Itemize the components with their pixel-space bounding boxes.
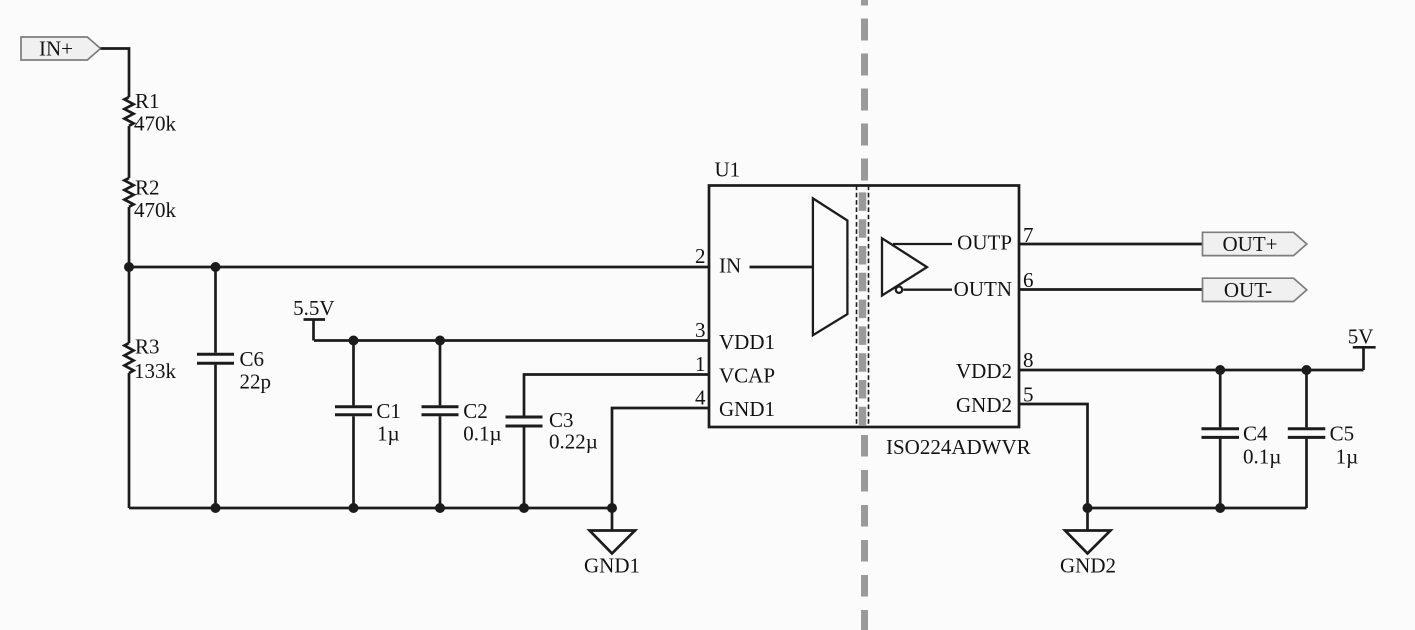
connector OUT+ [1203, 232, 1307, 255]
junction dot C4 top [1215, 365, 1225, 375]
capacitor C2 [439, 341, 442, 406]
svg-text:1: 1 [695, 352, 706, 376]
wire R3 to bottom rail [128, 373, 131, 508]
svg-text:GND1: GND1 [584, 553, 640, 577]
svg-text:1µ: 1µ [1336, 444, 1359, 468]
junction dot C2 top [435, 336, 445, 346]
junction dot C5 top [1302, 365, 1312, 375]
svg-text:C2: C2 [463, 399, 488, 423]
svg-text:C5: C5 [1330, 422, 1355, 446]
resistor R2 [124, 178, 133, 207]
svg-text:OUT+: OUT+ [1222, 232, 1277, 256]
capacitor C5 [1305, 370, 1308, 427]
svg-text:VCAP: VCAP [719, 364, 775, 388]
wire pin 7 to OUT+ [1019, 243, 1203, 246]
svg-text:VDD2: VDD2 [956, 359, 1012, 383]
junction dot C6 top [211, 262, 221, 272]
junction dots bottom rail [211, 503, 221, 513]
svg-text:5.5V: 5.5V [293, 296, 334, 320]
junction dot C4 bottom [1215, 503, 1225, 513]
U1 internal isolation dashed lines [856, 186, 858, 428]
svg-text:470k: 470k [134, 198, 177, 222]
svg-text:OUT-: OUT- [1224, 278, 1272, 302]
svg-text:IN+: IN+ [39, 37, 73, 61]
wire 5.5V rail to pin 3 (VDD1) [314, 339, 709, 342]
wire pin 5 (GND2) down [1019, 404, 1088, 508]
capacitor C1 [352, 341, 355, 406]
connector IN+ [21, 37, 101, 60]
svg-text:C4: C4 [1243, 422, 1268, 446]
capacitor C4 [1219, 370, 1222, 427]
resistor R1 [124, 97, 133, 126]
wire buffer to OUTP [893, 243, 952, 245]
svg-text:U1: U1 [715, 158, 741, 182]
svg-text:OUTN: OUTN [954, 277, 1012, 301]
capacitor C6 [214, 267, 217, 353]
wire IN to trapezoid [750, 266, 813, 269]
bottom right rail [1088, 507, 1307, 510]
op-amp U1 box [709, 186, 1019, 428]
svg-text:R2: R2 [135, 176, 160, 200]
svg-text:C3: C3 [549, 408, 574, 432]
U1 input stage trapezoid [813, 198, 848, 335]
U1 internal gray dashed line [859, 192, 867, 425]
U1 output buffer triangle [882, 238, 927, 295]
node A junction dot [124, 262, 134, 272]
isolation barrier gray dashed line (bottom segment) [861, 435, 868, 630]
svg-text:GND1: GND1 [719, 397, 775, 421]
wire R2 to node A [128, 207, 131, 267]
wire node A to pin 2 (IN) [129, 266, 709, 269]
svg-text:1µ: 1µ [377, 422, 400, 446]
svg-text:22p: 22p [240, 369, 272, 393]
junction dot C1 top [349, 336, 359, 346]
wire pin 4 (GND1) down [612, 408, 709, 508]
svg-text:C6: C6 [240, 347, 265, 371]
svg-text:GND2: GND2 [1060, 553, 1116, 577]
svg-text:0.22µ: 0.22µ [549, 430, 598, 454]
inverting bubble [896, 287, 902, 293]
resistor R3 [124, 343, 133, 373]
wire IN+ to R1 [101, 49, 130, 98]
capacitor C3 [506, 416, 543, 419]
svg-text:8: 8 [1023, 348, 1034, 372]
svg-text:OUTP: OUTP [957, 231, 1012, 255]
svg-text:R3: R3 [135, 335, 160, 359]
svg-text:IN: IN [719, 254, 741, 278]
svg-text:C1: C1 [376, 399, 401, 423]
svg-text:ISO224ADWVR: ISO224ADWVR [886, 435, 1031, 459]
wire pin 6 to OUT- [1019, 288, 1203, 291]
ground GND2 [1086, 508, 1089, 531]
wire pin 8 (VDD2) rail [1019, 369, 1364, 372]
svg-text:R1: R1 [135, 89, 160, 113]
junction dot GND2 [1083, 503, 1093, 513]
connector OUT- [1203, 278, 1307, 301]
wire node A to R3 [128, 267, 131, 343]
svg-text:VDD1: VDD1 [719, 330, 775, 354]
ground GND1 [611, 508, 614, 531]
svg-text:GND2: GND2 [956, 393, 1012, 417]
svg-text:470k: 470k [134, 111, 177, 135]
svg-text:0.1µ: 0.1µ [1243, 444, 1281, 468]
wire pin 1 (VCAP) to C3 [524, 375, 709, 416]
wire bubble to OUTN [903, 289, 952, 291]
svg-text:5V: 5V [1348, 324, 1374, 348]
svg-text:0.1µ: 0.1µ [463, 422, 501, 446]
svg-text:3: 3 [695, 318, 706, 342]
bottom left rail [129, 507, 612, 510]
svg-text:133k: 133k [134, 359, 177, 383]
svg-text:4: 4 [695, 386, 706, 410]
wire R1 to R2 [128, 126, 131, 178]
isolation barrier gray dashed line (top segment) [861, 0, 868, 186]
svg-text:2: 2 [695, 244, 706, 268]
